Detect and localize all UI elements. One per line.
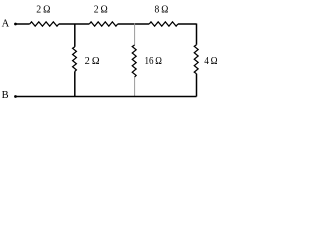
- svg-text:2 Ω: 2 Ω: [94, 4, 108, 15]
- svg-text:16 Ω: 16 Ω: [145, 55, 162, 67]
- svg-text:2 Ω: 2 Ω: [36, 4, 50, 15]
- svg-text:4 Ω: 4 Ω: [204, 55, 217, 67]
- svg-text:2 Ω: 2 Ω: [85, 55, 100, 67]
- svg-text:A: A: [2, 18, 10, 29]
- svg-text:B: B: [2, 90, 9, 101]
- svg-text:8 Ω: 8 Ω: [155, 4, 169, 15]
